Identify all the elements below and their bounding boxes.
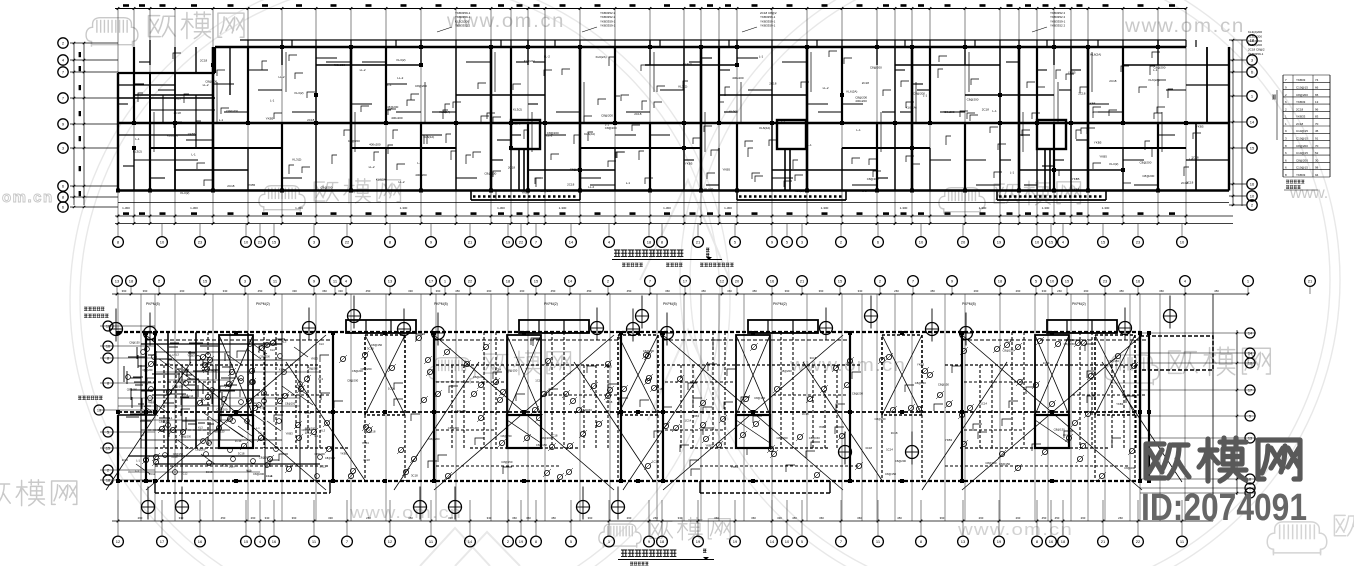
svg-text:3C18: 3C18 (157, 428, 164, 432)
svg-text:C8@150: C8@150 (885, 472, 897, 476)
svg-text:1-300: 1-300 (724, 206, 732, 210)
svg-text:C10@15: C10@15 (1296, 166, 1308, 170)
svg-text:L-1: L-1 (256, 426, 260, 430)
svg-text:260: 260 (520, 289, 525, 293)
svg-text:16: 16 (272, 539, 277, 544)
svg-text:2C18: 2C18 (1109, 79, 1117, 83)
svg-text:L-1: L-1 (136, 459, 140, 463)
svg-text:3C18: 3C18 (551, 434, 558, 438)
svg-text:YKB5: YKB5 (1072, 188, 1080, 192)
svg-text:360: 360 (714, 516, 719, 520)
svg-text:YKB3: YKB3 (917, 363, 925, 367)
svg-text:YKB3: YKB3 (187, 353, 195, 357)
svg-text:KL3: KL3 (222, 463, 227, 467)
svg-text:C8@200: C8@200 (1142, 174, 1154, 178)
svg-text:C8@200: C8@200 (259, 456, 271, 460)
right dim strip top plan (1232, 40, 1234, 206)
watermark sofa+logo over top plan right (939, 188, 985, 214)
svg-text:LL-2: LL-2 (397, 76, 403, 80)
svg-text:L-1: L-1 (140, 432, 144, 436)
svg-text:PKPM(5): PKPM(5) (663, 302, 677, 306)
svg-text:18: 18 (660, 539, 665, 544)
top band small rooms (240, 40, 1196, 47)
svg-text:70: 70 (1315, 144, 1319, 148)
svg-text:3C18: 3C18 (238, 451, 245, 455)
svg-text:1-300: 1-300 (1042, 206, 1050, 210)
svg-text:1C14: 1C14 (328, 411, 335, 415)
svg-text:LL-2: LL-2 (588, 185, 594, 189)
svg-text:YKB33: YKB33 (1296, 78, 1306, 82)
svg-text:LL-2: LL-2 (369, 165, 375, 169)
svg-text:C8@150: C8@150 (809, 436, 821, 440)
svg-text:KL3(2): KL3(2) (292, 157, 301, 161)
svg-text:8: 8 (107, 357, 109, 361)
stair cores top plan (511, 120, 540, 149)
svg-text:3C18: 3C18 (363, 458, 370, 462)
svg-text:10: 10 (1050, 279, 1055, 284)
svg-text:330: 330 (448, 516, 453, 520)
svg-text:C8@150: C8@150 (999, 462, 1011, 466)
svg-text:21: 21 (468, 240, 473, 245)
svg-text:19: 19 (997, 240, 1002, 245)
svg-text:C8@200: C8@200 (347, 379, 359, 383)
svg-text:KL3: KL3 (198, 426, 203, 430)
svg-text:10: 10 (97, 409, 101, 413)
svg-text:1C14: 1C14 (535, 378, 542, 382)
svg-text:C8@150: C8@150 (754, 396, 766, 400)
svg-text:YKB3: YKB3 (1116, 402, 1124, 406)
svg-text:5: 5 (107, 431, 109, 435)
svg-text:330: 330 (777, 516, 782, 520)
svg-text:450: 450 (366, 289, 371, 293)
svg-text:1-300: 1-300 (663, 206, 671, 210)
top plan right end extra (1186, 47, 1229, 191)
svg-text:10: 10 (244, 240, 249, 245)
svg-text:L-1: L-1 (387, 83, 392, 87)
svg-text:KL3(2): KL3(2) (133, 150, 142, 154)
svg-text:260: 260 (487, 289, 492, 293)
svg-text:YKB3352 2: YKB3352 2 (455, 24, 471, 28)
svg-text:450: 450 (752, 289, 757, 293)
svg-text:2C18: 2C18 (200, 59, 208, 63)
svg-text:C8@200: C8@200 (321, 186, 333, 190)
svg-text:C8@200: C8@200 (547, 131, 559, 135)
svg-text:13: 13 (1248, 437, 1252, 441)
bottom plan outer dashed walls (118, 331, 1140, 333)
svg-text:360: 360 (857, 516, 862, 520)
svg-text:3C18: 3C18 (606, 400, 613, 404)
svg-text:450: 450 (792, 516, 797, 520)
svg-text:C8@200: C8@200 (867, 177, 879, 181)
right dim strip bottom plan (1236, 330, 1238, 495)
svg-text:260: 260 (894, 289, 899, 293)
svg-text:330: 330 (179, 516, 184, 520)
svg-text:22: 22 (1136, 539, 1141, 544)
svg-text:C8@150: C8@150 (1066, 338, 1078, 342)
svg-text:23: 23 (198, 240, 203, 245)
svg-text:C10@15: C10@15 (1296, 151, 1308, 155)
svg-text:1C14: 1C14 (388, 387, 395, 391)
svg-text:www.om.cn: www.om.cn (1124, 16, 1245, 37)
svg-text:KL3(2)200: KL3(2)200 (1248, 30, 1262, 34)
svg-text:LL-2: LL-2 (544, 55, 550, 59)
svg-text:www.: www. (1289, 185, 1328, 202)
svg-text:14: 14 (1250, 120, 1255, 125)
watermark logo bottom-center (599, 524, 641, 548)
svg-text:14: 14 (770, 539, 775, 544)
top plan internal horizontal walls (118, 122, 1229, 124)
svg-text:KL6(2A): KL6(2A) (1090, 53, 1101, 57)
svg-text:KL3(2): KL3(2) (704, 187, 713, 191)
svg-text:L-1: L-1 (856, 128, 861, 132)
svg-text:L-1: L-1 (781, 118, 786, 122)
svg-text:260: 260 (180, 289, 185, 293)
bottom dim line top plan (115, 215, 1233, 217)
svg-text:L-1: L-1 (219, 118, 224, 122)
svg-text:10: 10 (785, 539, 790, 544)
svg-text:C8@200: C8@200 (305, 427, 316, 431)
svg-text:PKPM(2): PKPM(2) (773, 302, 787, 306)
svg-text:450: 450 (587, 289, 592, 293)
svg-text:17: 17 (160, 539, 165, 544)
svg-text:1-300: 1-300 (900, 206, 908, 210)
svg-text:KL6(2A): KL6(2A) (376, 178, 387, 182)
right grid circles bottom plan (1140, 332, 1256, 334)
svg-text:360: 360 (1159, 289, 1164, 293)
svg-text:C10@15: C10@15 (1296, 86, 1308, 90)
svg-text:KL6(2A): KL6(2A) (596, 55, 607, 59)
svg-text:YKB3: YKB3 (705, 444, 713, 448)
svg-text:2C18: 2C18 (1191, 155, 1199, 159)
svg-text:330: 330 (487, 516, 492, 520)
svg-text:23: 23 (1103, 279, 1108, 284)
svg-text:1C14: 1C14 (652, 460, 659, 464)
top dimension line (115, 8, 1186, 10)
bottom plan dense left-end cluster (118, 333, 320, 481)
bottom plan right wing (1140, 336, 1213, 370)
big watermark logo text (1146, 438, 1300, 481)
svg-text:2C18: 2C18 (227, 184, 235, 188)
svg-text:19: 19 (696, 539, 701, 544)
svg-text:15: 15 (272, 240, 277, 245)
svg-text:C8@200: C8@200 (570, 167, 582, 171)
svg-text:C8@200: C8@200 (967, 97, 979, 101)
svg-text:YKB5: YKB5 (187, 121, 195, 125)
svg-text:YKB5: YKB5 (722, 168, 730, 172)
svg-text:450: 450 (627, 289, 632, 293)
svg-text:L-1: L-1 (270, 99, 275, 103)
svg-text:1-300: 1-300 (400, 206, 408, 210)
svg-text:3C18: 3C18 (865, 446, 872, 450)
svg-text:2C18: 2C18 (307, 118, 315, 122)
svg-text:L-1: L-1 (144, 368, 148, 372)
svg-text:2C18: 2C18 (1296, 122, 1304, 126)
svg-text:16: 16 (1136, 279, 1141, 284)
svg-text:8: 8 (107, 382, 109, 386)
svg-text:KL6(2A): KL6(2A) (584, 132, 595, 136)
svg-text:2C18: 2C18 (982, 108, 990, 112)
callout bubbles with cross (110, 323, 123, 336)
svg-text:KL3: KL3 (318, 377, 323, 381)
svg-text:22: 22 (345, 240, 350, 245)
svg-text:330: 330 (292, 289, 297, 293)
svg-text:450: 450 (258, 289, 263, 293)
svg-text:KL3: KL3 (319, 342, 324, 346)
svg-text:450: 450 (221, 516, 226, 520)
svg-text:22: 22 (519, 240, 524, 245)
svg-text:YKB3: YKB3 (819, 425, 827, 429)
svg-text:1-300: 1-300 (190, 206, 198, 210)
svg-text:19: 19 (506, 240, 511, 245)
grid circle row A (top plan bottom) (117, 224, 119, 237)
svg-text:C8@200: C8@200 (855, 95, 867, 99)
svg-text:PKPM(5): PKPM(5) (434, 302, 448, 306)
svg-text:10: 10 (919, 240, 924, 245)
svg-text:52: 52 (1315, 151, 1319, 155)
svg-text:450: 450 (455, 289, 460, 293)
grid verticals top plan (118, 9, 1186, 224)
svg-text:330: 330 (408, 289, 413, 293)
grid circle row C (bottom plan bottom) (117, 500, 119, 536)
svg-text:13: 13 (388, 279, 393, 284)
svg-text:LL-2: LL-2 (399, 180, 405, 184)
svg-text:2C18: 2C18 (1296, 107, 1304, 111)
svg-text:C8@200: C8@200 (159, 420, 171, 424)
svg-text:15: 15 (203, 279, 208, 284)
svg-text:3C18: 3C18 (1006, 338, 1013, 342)
svg-text:15: 15 (106, 447, 110, 451)
svg-text:PKPM(2): PKPM(2) (256, 302, 270, 306)
svg-text:C8@150: C8@150 (173, 452, 184, 456)
svg-text:KL3(2): KL3(2) (295, 91, 304, 95)
svg-text:18: 18 (1250, 38, 1255, 43)
svg-text:2C12: 2C12 (320, 464, 327, 468)
svg-text:YKB5: YKB5 (1088, 102, 1096, 106)
svg-text:2C18: 2C18 (567, 183, 575, 187)
svg-text:20: 20 (961, 240, 966, 245)
svg-text:3C18: 3C18 (206, 470, 213, 474)
svg-text:18: 18 (106, 479, 110, 483)
svg-text:C10@15: C10@15 (1296, 137, 1308, 141)
top plan outer walls (215, 46, 1186, 48)
svg-text:330: 330 (338, 289, 343, 293)
svg-text:360: 360 (512, 516, 517, 520)
svg-text:15: 15 (1049, 240, 1054, 245)
svg-text:15: 15 (1250, 146, 1255, 151)
left texts bottom plan (84, 307, 104, 311)
svg-text:KL6(2A): KL6(2A) (846, 89, 857, 93)
svg-text:18: 18 (506, 279, 511, 284)
svg-text:KL3(2): KL3(2) (729, 110, 738, 114)
svg-text:1-300: 1-300 (979, 206, 987, 210)
svg-text:KL3(2): KL3(2) (180, 191, 189, 195)
svg-text:360: 360 (322, 289, 327, 293)
svg-text:360: 360 (436, 289, 441, 293)
svg-text:C8@200: C8@200 (777, 436, 789, 440)
svg-text:260: 260 (974, 289, 979, 293)
svg-text:260: 260 (979, 516, 984, 520)
svg-text:17: 17 (1248, 389, 1252, 393)
svg-text:C8@200: C8@200 (643, 349, 655, 353)
svg-text:330: 330 (1042, 289, 1047, 293)
svg-text:C8@150: C8@150 (1108, 359, 1120, 363)
svg-text:C8@150: C8@150 (129, 340, 140, 344)
svg-text:KL3(2): KL3(2) (513, 107, 522, 111)
svg-text:C8@200: C8@200 (870, 65, 882, 69)
watermark logo bottom-left corner (0, 480, 77, 506)
svg-text:400x200: 400x200 (732, 76, 744, 80)
svg-text:C8@150: C8@150 (915, 381, 927, 385)
svg-text:2C18: 2C18 (508, 166, 516, 170)
svg-text:23: 23 (258, 240, 263, 245)
top plan small flags (138, 51, 1201, 199)
svg-text:14: 14 (569, 240, 574, 245)
svg-text:13: 13 (1315, 100, 1319, 104)
svg-text:KL3(2): KL3(2) (683, 62, 692, 66)
svg-text:C8@150: C8@150 (501, 460, 513, 464)
svg-text:14: 14 (568, 279, 573, 284)
svg-text:14: 14 (1248, 332, 1252, 336)
svg-text:C8@200: C8@200 (1140, 161, 1152, 165)
svg-text:C8@150: C8@150 (1003, 348, 1015, 352)
svg-text:YKB3359-1: YKB3359-1 (600, 24, 616, 28)
bottom dim line bottom plan (112, 520, 1213, 522)
svg-text:2C18: 2C18 (1078, 91, 1086, 95)
svg-text:5: 5 (1249, 415, 1251, 419)
svg-text:C8@200: C8@200 (781, 369, 793, 373)
svg-text:450: 450 (1042, 516, 1047, 520)
svg-text:10: 10 (1250, 194, 1255, 199)
svg-text:KL3: KL3 (270, 348, 275, 352)
svg-text:1-300: 1-300 (1102, 206, 1110, 210)
svg-text:C8@200: C8@200 (285, 402, 296, 406)
svg-text:C10@15: C10@15 (1296, 129, 1308, 133)
svg-text:C8@200: C8@200 (852, 392, 864, 396)
svg-text:1C14: 1C14 (229, 465, 236, 469)
svg-text:14: 14 (468, 539, 473, 544)
svg-text:16: 16 (1250, 182, 1255, 187)
svg-text:YKB3: YKB3 (311, 356, 319, 360)
svg-text:260: 260 (1118, 516, 1123, 520)
svg-text:13: 13 (115, 279, 120, 284)
svg-text:C8@200: C8@200 (455, 409, 467, 413)
svg-text:C8@200: C8@200 (605, 126, 617, 130)
svg-text:14: 14 (1248, 352, 1252, 356)
svg-text:3C18: 3C18 (802, 412, 809, 416)
svg-text:19: 19 (733, 539, 738, 544)
svg-text:360: 360 (665, 289, 670, 293)
svg-text:C8@150: C8@150 (172, 385, 184, 389)
svg-text:1C14: 1C14 (1043, 361, 1050, 365)
svg-text:LL-2: LL-2 (823, 86, 829, 90)
svg-text:21: 21 (1101, 539, 1106, 544)
bottom plan top dim line (112, 293, 1248, 295)
svg-text:YKB5: YKB5 (248, 183, 256, 187)
svg-text:2C12: 2C12 (149, 472, 156, 476)
svg-text:YKB5: YKB5 (1196, 125, 1204, 129)
left dim strip top plan (73, 43, 75, 205)
svg-text:16: 16 (1049, 539, 1054, 544)
svg-text:18: 18 (998, 279, 1003, 284)
svg-text:400x200: 400x200 (943, 110, 955, 114)
left grid circles bottom plan (100, 325, 155, 327)
svg-text:16: 16 (198, 539, 203, 544)
svg-text:360: 360 (940, 516, 945, 520)
watermark sofa bottom-right corner (1267, 522, 1327, 555)
svg-text:70: 70 (1315, 122, 1319, 126)
svg-text:C8@200: C8@200 (540, 189, 552, 193)
svg-text:L-1: L-1 (258, 431, 262, 435)
watermark sofa+logo over top plan left (259, 186, 305, 212)
svg-text:1C14: 1C14 (235, 439, 242, 443)
bottom plan corner flags (147, 334, 1135, 476)
bottom plan lower extensions (155, 492, 330, 494)
svg-text:www.om.cn: www.om.cn (957, 520, 1073, 539)
grid verticals bottom plan (118, 294, 1213, 521)
svg-text:91: 91 (1315, 137, 1319, 141)
svg-text:C8@200: C8@200 (253, 472, 265, 476)
svg-text:260: 260 (251, 516, 256, 520)
svg-text:PKPM(2): PKPM(2) (1072, 302, 1086, 306)
svg-text:18: 18 (647, 240, 652, 245)
svg-text:360: 360 (526, 516, 531, 520)
svg-text:C8@150: C8@150 (985, 461, 997, 465)
svg-text:L-1: L-1 (191, 152, 196, 156)
svg-text:C8@200: C8@200 (448, 426, 460, 430)
svg-text:3C18: 3C18 (411, 474, 418, 478)
svg-text:2C12: 2C12 (181, 472, 188, 476)
svg-text:YKB5: YKB5 (1072, 177, 1080, 181)
svg-text:YKB5: YKB5 (1094, 140, 1102, 144)
svg-text:KL6(2A): KL6(2A) (906, 106, 917, 110)
svg-text:13: 13 (961, 539, 966, 544)
svg-text:96: 96 (1315, 107, 1319, 111)
svg-text:YKB3: YKB3 (362, 441, 370, 445)
bottom plan scattered rebar circles (142, 334, 1138, 481)
svg-text:1-300: 1-300 (295, 206, 303, 210)
svg-text:C8@200: C8@200 (325, 456, 336, 460)
svg-text:94: 94 (1315, 173, 1319, 177)
svg-text:C8@200: C8@200 (601, 113, 613, 117)
svg-text:YKB5: YKB5 (266, 117, 274, 121)
svg-text:YKB33: YKB33 (1296, 115, 1306, 119)
svg-text:3C18: 3C18 (304, 411, 311, 415)
svg-text:3C18: 3C18 (810, 356, 817, 360)
svg-text:C8@200: C8@200 (473, 375, 485, 379)
svg-text:KL3: KL3 (321, 429, 326, 433)
svg-text:C8@200: C8@200 (1296, 158, 1308, 162)
svg-text:C8@150: C8@150 (506, 369, 518, 373)
svg-text:YKB33: YKB33 (1296, 173, 1306, 177)
svg-text:260: 260 (366, 516, 371, 520)
grid circle row B (bottom plan top) (112, 276, 123, 287)
svg-text:YKB3352 2: YKB3352 2 (1050, 24, 1066, 28)
bottom plan module structures (106, 335, 366, 490)
svg-text:C8@200: C8@200 (1154, 65, 1166, 69)
svg-text:18: 18 (106, 325, 110, 329)
svg-text:12: 12 (116, 539, 121, 544)
svg-text:74: 74 (1315, 78, 1319, 82)
svg-text:360: 360 (122, 289, 127, 293)
svg-text:om.cn: om.cn (2, 189, 54, 206)
svg-text:260: 260 (1057, 289, 1062, 293)
svg-text:21: 21 (800, 279, 805, 284)
svg-text:2: 2 (107, 469, 109, 473)
svg-text:L-1: L-1 (417, 161, 422, 165)
svg-text:C8@200: C8@200 (195, 447, 206, 451)
svg-text:KL3: KL3 (174, 353, 179, 357)
svg-text:360: 360 (819, 516, 824, 520)
